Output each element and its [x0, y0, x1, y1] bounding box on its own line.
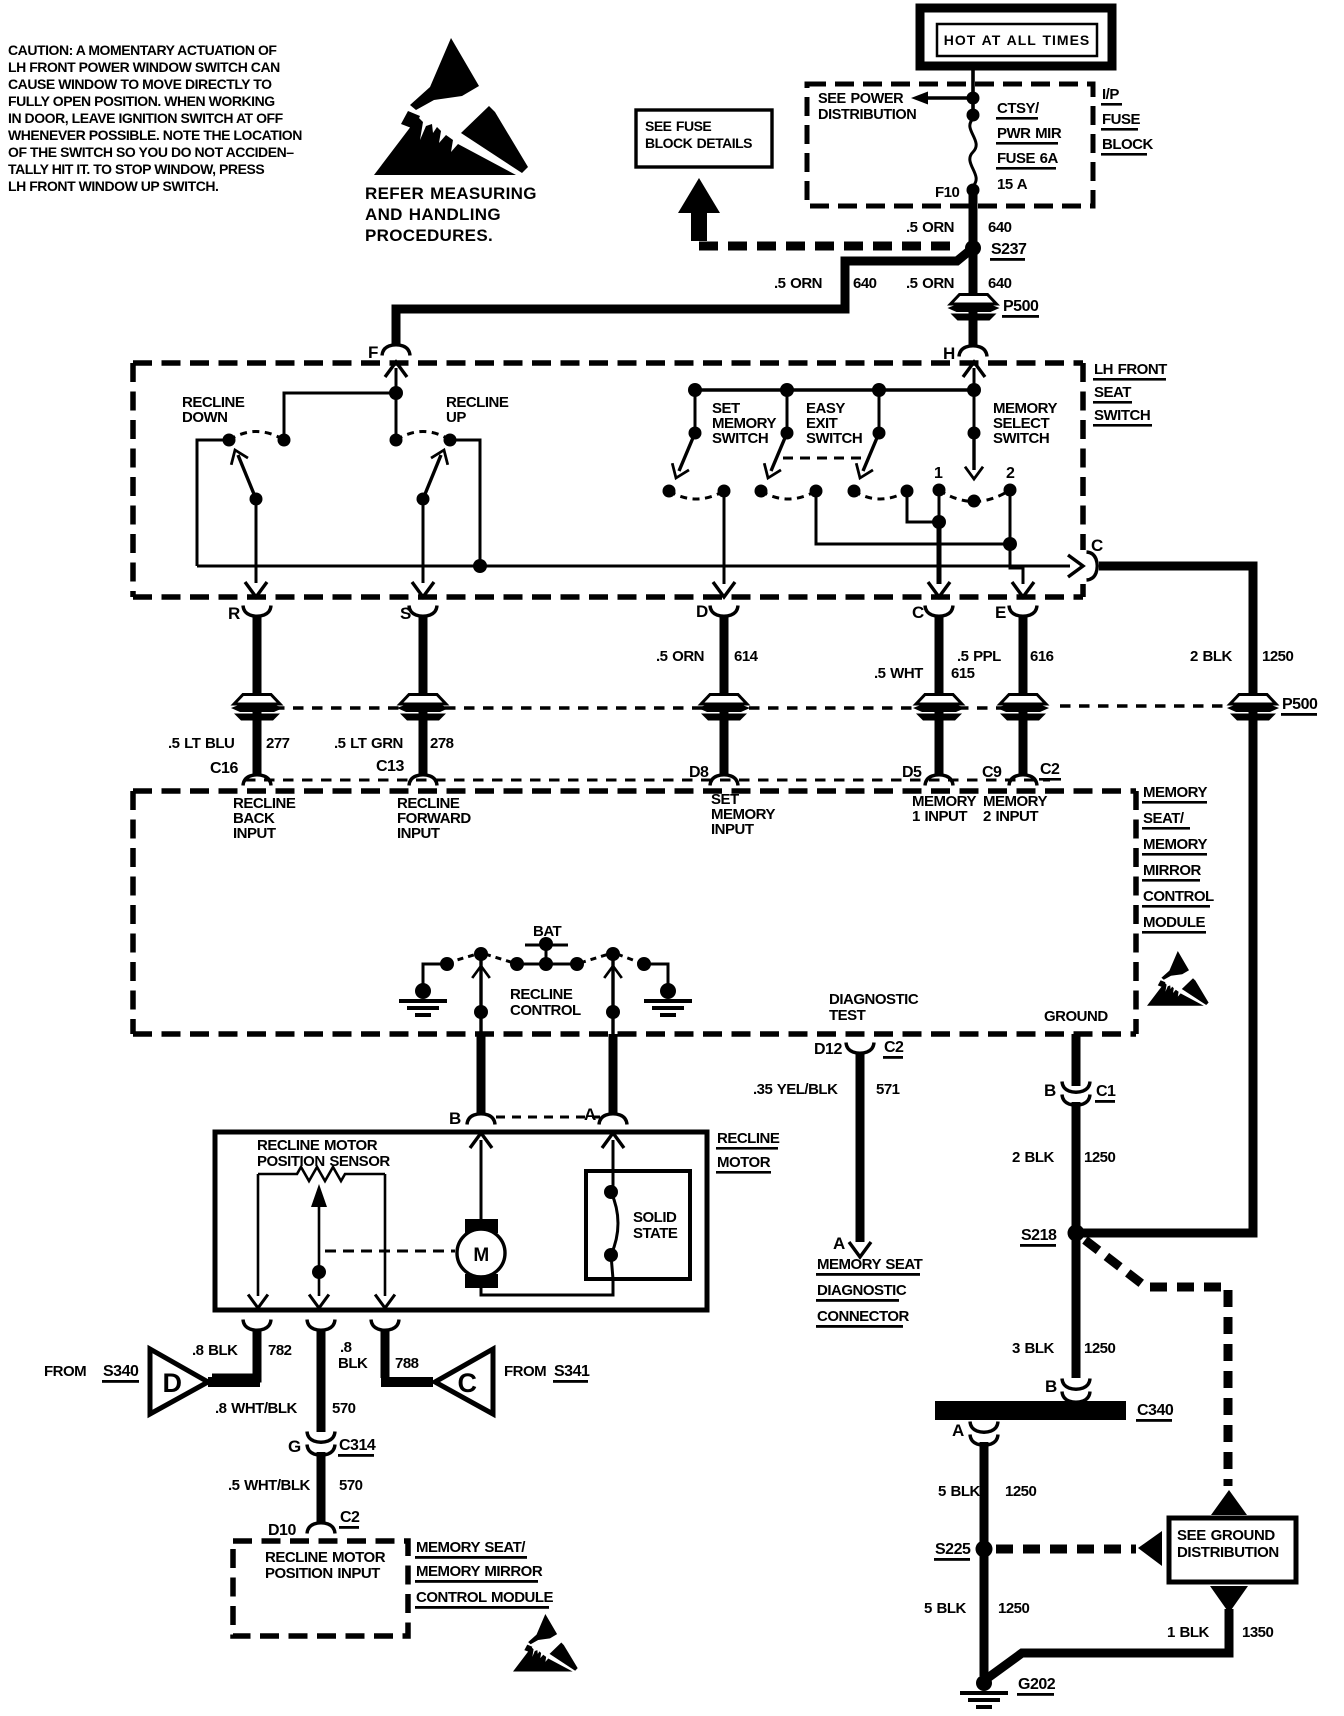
- switch EASY EXIT pole 2: [848, 390, 914, 499]
- svg-text:STATE: STATE: [633, 1225, 678, 1242]
- label RECLINE DOWN: [182, 394, 245, 426]
- connector C340 bar: [935, 1401, 1126, 1420]
- svg-text:.5 WHT/BLK: .5 WHT/BLK: [228, 1477, 310, 1494]
- pin C cup: [925, 606, 953, 617]
- svg-text:POSITION SENSOR: POSITION SENSOR: [257, 1153, 390, 1170]
- grommet 2BLK at P500: [1227, 695, 1279, 721]
- svg-text:C16: C16: [210, 760, 238, 777]
- connector C1: [1062, 1082, 1090, 1093]
- svg-text:15 A: 15 A: [997, 176, 1028, 193]
- svg-text:TEST: TEST: [829, 1007, 866, 1024]
- svg-text:RECLINE MOTOR: RECLINE MOTOR: [257, 1137, 378, 1154]
- label SET MEMORY SWITCH: [712, 400, 776, 447]
- ESD symbol (bottom): [513, 1614, 578, 1672]
- connector plane dashed line P500: [236, 706, 1048, 709]
- svg-text:A: A: [584, 1105, 596, 1124]
- dashed wire to S237: [699, 242, 960, 251]
- sensor wiper: [318, 1196, 321, 1296]
- label .5 LT BLU 277: [168, 735, 290, 752]
- svg-text:.8 WHT/BLK: .8 WHT/BLK: [215, 1400, 297, 1417]
- svg-text:.8: .8: [340, 1339, 352, 1356]
- switch RECLINE DOWN: [223, 432, 291, 506]
- svg-text:LH FRONT: LH FRONT: [1094, 361, 1167, 378]
- label 5 BLK 1250 (upper): [938, 1483, 1037, 1500]
- svg-text:F10: F10: [935, 184, 960, 201]
- wire S218 to C340: [1072, 1237, 1081, 1378]
- svg-text:A: A: [952, 1421, 964, 1440]
- svg-text:C: C: [912, 603, 924, 622]
- svg-text:C13: C13: [376, 758, 404, 775]
- ground G202: [960, 1675, 1008, 1709]
- easy exit mechanical link: [783, 457, 869, 460]
- svg-text:S340: S340: [103, 1363, 139, 1380]
- SEE FUSE BLOCK DETAILS box: [636, 110, 772, 167]
- switch SET MEMORY: [663, 390, 731, 499]
- switch MEMORY SELECT: [933, 390, 1017, 508]
- label SET MEMORY INPUT: [711, 791, 775, 838]
- svg-text:DIAGNOSTIC: DIAGNOSTIC: [817, 1282, 907, 1299]
- label RECLINE UP: [446, 394, 509, 426]
- solid state contact: [612, 1171, 615, 1190]
- svg-text:S218: S218: [1021, 1227, 1057, 1244]
- svg-text:SWITCH: SWITCH: [993, 430, 1049, 447]
- svg-text:SWITCH: SWITCH: [1094, 407, 1150, 424]
- wire relay left to B: [479, 958, 482, 1034]
- wire F rail: [284, 393, 396, 440]
- A entry arrow into motor box: [602, 1133, 624, 1148]
- wire from HOT box into fuse: [971, 66, 975, 120]
- label RECLINE FORWARD INPUT: [397, 795, 471, 842]
- wire to C triangle: [381, 1330, 390, 1378]
- arrow up to SEE FUSE BLOCK DETAILS: [678, 178, 720, 213]
- svg-text:1250: 1250: [1262, 648, 1294, 665]
- ESD warning symbol (top): [374, 38, 528, 175]
- svg-text:C: C: [458, 1368, 477, 1398]
- svg-text:614: 614: [734, 648, 759, 665]
- svg-text:P500: P500: [1282, 696, 1318, 713]
- node F junction: [389, 386, 403, 400]
- I/P fuse block dashed box: [807, 84, 1093, 206]
- label MEMORY SEAT/MEMORY MIRROR CONTROL MODULE (bottom): [415, 1539, 554, 1609]
- label MEMORY SEAT/MEMORY MIRROR CONTROL MODULE (right): [1142, 784, 1214, 934]
- svg-text:277: 277: [266, 735, 290, 752]
- relay wiper left: [474, 947, 488, 961]
- label .5 ORN 614: [656, 648, 759, 665]
- svg-text:RECLINE: RECLINE: [717, 1130, 780, 1147]
- connector B cap: [467, 1114, 495, 1125]
- svg-text:A: A: [833, 1234, 845, 1253]
- MEMORY SEAT MODULE dashed box: [133, 791, 1136, 1034]
- RECLINE MOTOR POSITION INPUT dashed box: [233, 1541, 408, 1636]
- svg-text:CONTROL: CONTROL: [1143, 888, 1214, 905]
- connector D10/C2 cap: [307, 1523, 335, 1534]
- wire common line to C: [197, 565, 1070, 568]
- svg-text:I/P: I/P: [1102, 86, 1119, 103]
- label FROM S340: [44, 1363, 139, 1383]
- svg-text:BLOCK: BLOCK: [1102, 136, 1153, 153]
- label .5 WHT/BLK 570: [228, 1477, 363, 1494]
- svg-text:SEAT: SEAT: [1094, 384, 1131, 401]
- svg-text:INPUT: INPUT: [233, 825, 276, 842]
- connector C13 cap: [409, 775, 437, 786]
- svg-text:1 INPUT: 1 INPUT: [912, 808, 967, 825]
- svg-text:M: M: [473, 1245, 488, 1266]
- label .5 ORN 640 (below S237): [906, 275, 1012, 292]
- wire relay right to A: [611, 958, 614, 1034]
- svg-text:S225: S225: [935, 1541, 971, 1558]
- grommet C at P500: [913, 695, 965, 721]
- svg-text:2 BLK: 2 BLK: [1190, 648, 1233, 665]
- svg-text:615: 615: [951, 665, 975, 682]
- connector C16 cap: [243, 775, 271, 786]
- label .5 LT GRN 278: [334, 735, 454, 752]
- svg-text:278: 278: [430, 735, 454, 752]
- svg-text:571: 571: [876, 1081, 900, 1098]
- label RECLINE CONTROL: [510, 986, 581, 1019]
- label .8 WHT/BLK 570: [215, 1400, 356, 1417]
- wire S output: [422, 499, 425, 583]
- svg-text:.5 ORN: .5 ORN: [906, 219, 954, 236]
- ESD symbol (module): [1147, 951, 1209, 1006]
- wire recline-up contact to common: [450, 440, 480, 563]
- svg-text:INPUT: INPUT: [711, 821, 754, 838]
- svg-text:REFER MEASURING: REFER MEASURING: [365, 184, 537, 203]
- relay wiper right: [606, 947, 620, 961]
- svg-text:1250: 1250: [998, 1600, 1030, 1617]
- label RECLINE BACK INPUT: [233, 795, 296, 842]
- arrow below ground distribution box: [1210, 1586, 1248, 1613]
- fuse CTSY/PWR MIR FUSE 6A: [970, 119, 976, 186]
- svg-text:B: B: [1045, 1377, 1057, 1396]
- svg-text:C2: C2: [1040, 761, 1060, 778]
- C side exit arrow: [1068, 555, 1083, 577]
- svg-text:D12: D12: [814, 1041, 842, 1058]
- connector C340 A: [970, 1422, 998, 1433]
- connector plane dashed line (module top): [245, 779, 1050, 782]
- fuse labels: [996, 100, 1062, 193]
- svg-text:MEMORY MIRROR: MEMORY MIRROR: [416, 1563, 543, 1580]
- svg-text:D: D: [163, 1368, 182, 1398]
- wire to D triangle: [212, 1330, 257, 1378]
- label EASY EXIT SWITCH: [806, 400, 862, 447]
- wire motor bottom to solid state: [481, 1279, 613, 1295]
- connector C314: [307, 1432, 335, 1443]
- label FROM S341: [504, 1363, 590, 1383]
- svg-text:1250: 1250: [1084, 1149, 1116, 1166]
- svg-text:R: R: [228, 604, 240, 623]
- wire C1 to S218: [1072, 1102, 1081, 1233]
- connector C9/C2 cap: [1009, 775, 1037, 786]
- label MEMORY 2 INPUT: [983, 793, 1047, 825]
- label MEMORY 1 INPUT: [912, 793, 976, 825]
- svg-text:MEMORY: MEMORY: [1143, 836, 1207, 853]
- switch EASY EXIT pole 1: [755, 390, 823, 499]
- label RECLINE MOTOR (module): [716, 1130, 780, 1174]
- SOLID STATE box: [586, 1171, 690, 1279]
- svg-text:640: 640: [853, 275, 877, 292]
- svg-text:570: 570: [332, 1400, 356, 1417]
- label MEMORY SEAT DIAGNOSTIC CONNECTOR: [816, 1256, 923, 1328]
- svg-text:S341: S341: [554, 1363, 590, 1380]
- wire 1 BLK to G202: [985, 1609, 1229, 1680]
- svg-text:C314: C314: [339, 1437, 376, 1454]
- svg-text:SWITCH: SWITCH: [712, 430, 768, 447]
- svg-text:DISTRIBUTION: DISTRIBUTION: [1177, 1544, 1279, 1561]
- pin S cup: [409, 606, 437, 617]
- svg-text:TALLY HIT IT. TO STOP WINDOW,: TALLY HIT IT. TO STOP WINDOW, PRESS: [8, 161, 264, 177]
- svg-text:DISTRIBUTION: DISTRIBUTION: [818, 107, 916, 123]
- svg-text:CONNECTOR: CONNECTOR: [817, 1308, 910, 1325]
- svg-text:616: 616: [1030, 648, 1054, 665]
- label .5 ORN 640 (above S237): [906, 219, 1012, 236]
- svg-text:HOT AT ALL TIMES: HOT AT ALL TIMES: [944, 32, 1091, 48]
- switch RECLINE UP: [390, 432, 457, 506]
- wire memory1 to C output: [907, 491, 936, 522]
- node S225: [976, 1541, 993, 1558]
- connector A cap: [599, 1114, 627, 1125]
- connector F cap: [382, 345, 410, 356]
- wire ground to C1: [1072, 1034, 1081, 1086]
- node S218: [1068, 1225, 1085, 1242]
- svg-text:788: 788: [395, 1355, 419, 1372]
- F entry arrow: [385, 362, 407, 377]
- svg-text:RECLINE MOTOR: RECLINE MOTOR: [265, 1549, 386, 1566]
- svg-text:640: 640: [988, 275, 1012, 292]
- pin D cup: [710, 606, 738, 617]
- wire branch S237 to F: [396, 252, 968, 346]
- wire center to C314: [317, 1330, 326, 1432]
- B-A connector dashed link: [496, 1116, 600, 1119]
- connector D5 cap: [925, 775, 953, 786]
- svg-text:782: 782: [268, 1342, 292, 1359]
- label .5 ORN 640 (branch): [774, 275, 877, 292]
- svg-text:D: D: [696, 602, 708, 621]
- label .8 BLK 788: [338, 1339, 419, 1372]
- svg-text:3 BLK: 3 BLK: [1012, 1340, 1055, 1357]
- label 1 BLK 1350: [1167, 1624, 1274, 1641]
- pin E cup: [1009, 606, 1037, 617]
- svg-text:1250: 1250: [1084, 1340, 1116, 1357]
- svg-text:FUSE 6A: FUSE 6A: [997, 150, 1059, 167]
- label SEE POWER DISTRIBUTION: [818, 91, 916, 123]
- wire memory2 to E output: [816, 491, 1007, 544]
- connector H cap: [959, 346, 987, 357]
- label 2 BLK 1250: [1012, 1149, 1116, 1166]
- svg-text:PWR MIR: PWR MIR: [997, 125, 1062, 142]
- svg-text:.5 PPL: .5 PPL: [957, 648, 1001, 665]
- ground (relay right): [644, 964, 668, 984]
- ESD note text: [365, 184, 537, 245]
- label RECLINE MOTOR POSITION SENSOR: [257, 1137, 390, 1170]
- svg-text:MEMORY: MEMORY: [1143, 784, 1207, 801]
- svg-text:5 BLK: 5 BLK: [924, 1600, 967, 1617]
- motor M: [457, 1219, 505, 1288]
- grommet S at P500: [397, 695, 449, 721]
- svg-text:5 BLK: 5 BLK: [938, 1483, 981, 1500]
- svg-text:PROCEDURES.: PROCEDURES.: [365, 226, 493, 245]
- B entry arrow into motor box: [470, 1133, 492, 1148]
- svg-text:DOWN: DOWN: [182, 409, 228, 426]
- svg-text:2 INPUT: 2 INPUT: [983, 808, 1038, 825]
- svg-text:MIRROR: MIRROR: [1143, 862, 1201, 879]
- svg-text:C1: C1: [1096, 1083, 1116, 1100]
- svg-text:2: 2: [1006, 465, 1015, 482]
- svg-text:1 BLK: 1 BLK: [1167, 1624, 1210, 1641]
- svg-text:POSITION INPUT: POSITION INPUT: [265, 1565, 380, 1582]
- svg-text:B: B: [449, 1109, 461, 1128]
- svg-text:D5: D5: [902, 764, 922, 781]
- dashed wire S225 to ground distribution: [996, 1545, 1136, 1554]
- svg-text:AND HANDLING: AND HANDLING: [365, 205, 501, 224]
- svg-text:G202: G202: [1018, 1676, 1056, 1693]
- svg-text:D8: D8: [689, 764, 709, 781]
- svg-text:CAUSE WINDOW TO MOVE DIRECTLY: CAUSE WINDOW TO MOVE DIRECTLY TO: [8, 76, 272, 92]
- label I/P FUSE BLOCK: [1101, 86, 1153, 156]
- svg-text:LH FRONT WINDOW UP SWITCH.: LH FRONT WINDOW UP SWITCH.: [8, 178, 218, 194]
- svg-text:MODULE: MODULE: [1143, 914, 1205, 931]
- svg-text:.5 LT GRN: .5 LT GRN: [334, 735, 403, 752]
- triangle C (FROM S341): [435, 1349, 493, 1414]
- wire F to recline-up contact: [395, 393, 398, 440]
- motor box output cups: [243, 1320, 271, 1331]
- label .8 BLK 782: [192, 1342, 292, 1359]
- LH FRONT SEAT SWITCH dashed box: [133, 363, 1083, 597]
- svg-text:H: H: [943, 344, 955, 363]
- svg-text:.5 ORN: .5 ORN: [656, 648, 704, 665]
- svg-text:DIAGNOSTIC: DIAGNOSTIC: [829, 991, 919, 1008]
- svg-text:WHENEVER POSSIBLE. NOTE THE L: WHENEVER POSSIBLE. NOTE THE LOCATION: [8, 127, 302, 143]
- pin R cup: [243, 606, 271, 617]
- svg-text:FROM: FROM: [44, 1363, 86, 1380]
- caution note text: [8, 42, 302, 194]
- H entry arrow: [963, 362, 985, 377]
- wire set memory to D output: [723, 491, 726, 584]
- svg-text:FULLY OPEN POSITION. WHEN WOR: FULLY OPEN POSITION. WHEN WORKING: [8, 93, 275, 109]
- sensor resistor: [258, 1167, 385, 1181]
- svg-text:570: 570: [339, 1477, 363, 1494]
- wire A to S225: [980, 1442, 989, 1549]
- grommet E at P500: [997, 695, 1049, 721]
- svg-text:1: 1: [934, 465, 943, 482]
- svg-text:SEE POWER: SEE POWER: [818, 91, 904, 107]
- wire C exit to S218 (right side run): [1081, 566, 1253, 1233]
- label DIAGNOSTIC TEST: [829, 991, 919, 1024]
- grommet D at P500: [698, 695, 750, 721]
- ground (relay left): [423, 964, 447, 984]
- svg-text:2 BLK: 2 BLK: [1012, 1149, 1055, 1166]
- svg-text:.5 WHT: .5 WHT: [874, 665, 923, 682]
- sensor right leg: [384, 1174, 387, 1296]
- svg-text:D10: D10: [268, 1522, 296, 1539]
- label 2 BLK 1250: [1190, 648, 1294, 665]
- triangle D (FROM S340): [150, 1349, 208, 1414]
- label .5 WHT 615: [874, 665, 975, 682]
- wire recline-down contact to common: [197, 440, 229, 566]
- svg-text:C9: C9: [982, 764, 1002, 781]
- svg-text:SEE FUSE: SEE FUSE: [645, 118, 711, 134]
- svg-text:UP: UP: [446, 409, 466, 426]
- svg-text:MOTOR: MOTOR: [717, 1154, 771, 1171]
- label MEMORY SELECT SWITCH: [993, 400, 1057, 447]
- wire D to D8: [720, 616, 729, 776]
- HOT AT ALL TIMES box: [920, 8, 1112, 66]
- svg-text:.8 BLK: .8 BLK: [192, 1342, 238, 1359]
- svg-text:CONTROL: CONTROL: [510, 1002, 581, 1019]
- wire C314 to D10: [317, 1452, 326, 1523]
- svg-text:MEMORY SEAT: MEMORY SEAT: [817, 1256, 923, 1273]
- wire E to C9: [1019, 616, 1028, 776]
- svg-text:.5 ORN: .5 ORN: [906, 275, 954, 292]
- wire D12 to diag connector: [856, 1053, 865, 1242]
- label 3 BLK 1250: [1012, 1340, 1116, 1357]
- svg-text:1250: 1250: [1005, 1483, 1037, 1500]
- sensor left leg: [257, 1174, 260, 1296]
- wire F10 to S237 to P500 to H: [969, 194, 978, 347]
- svg-text:SEE GROUND: SEE GROUND: [1177, 1527, 1275, 1544]
- svg-text:.35 YEL/BLK: .35 YEL/BLK: [753, 1081, 838, 1098]
- svg-text:F: F: [368, 343, 378, 362]
- svg-text:1350: 1350: [1242, 1624, 1274, 1641]
- svg-text:S: S: [400, 604, 411, 623]
- svg-text:LH FRONT POWER WINDOW SWITCH C: LH FRONT POWER WINDOW SWITCH CAN: [8, 59, 280, 75]
- grommet R at P500: [231, 695, 283, 721]
- wire S225 to G202: [980, 1553, 989, 1676]
- connector D8 cap: [710, 775, 738, 786]
- arrow to SEE POWER DISTRIBUTION: [928, 96, 973, 99]
- RECLINE MOTOR box: [215, 1132, 707, 1310]
- label LH FRONT SEAT SWITCH: [1093, 361, 1167, 427]
- svg-text:MEMORY SEAT/: MEMORY SEAT/: [416, 1539, 526, 1556]
- relay contact row: [517, 963, 577, 966]
- svg-text:.5 ORN: .5 ORN: [774, 275, 822, 292]
- svg-text:INPUT: INPUT: [397, 825, 440, 842]
- svg-text:RECLINE: RECLINE: [510, 986, 573, 1003]
- svg-text:FUSE: FUSE: [1102, 111, 1141, 128]
- svg-text:E: E: [995, 603, 1006, 622]
- connector C340 B: [1062, 1379, 1090, 1390]
- svg-text:B: B: [1044, 1081, 1056, 1100]
- node common junction: [473, 559, 487, 573]
- svg-text:C2: C2: [340, 1509, 360, 1526]
- label 5 BLK 1250 (lower): [924, 1600, 1030, 1617]
- svg-text:SEAT/: SEAT/: [1143, 810, 1185, 827]
- svg-text:CONTROL MODULE: CONTROL MODULE: [416, 1589, 554, 1606]
- svg-text:GROUND: GROUND: [1044, 1008, 1108, 1025]
- H rail: [695, 388, 974, 392]
- wire R output: [255, 499, 258, 583]
- wire R to C16: [253, 616, 262, 776]
- svg-text:BLK: BLK: [338, 1355, 368, 1372]
- svg-text:CAUTION: A MOMENTARY ACTUATIO: CAUTION: A MOMENTARY ACTUATION OF: [8, 42, 277, 58]
- svg-text:C340: C340: [1137, 1402, 1174, 1419]
- svg-text:640: 640: [988, 219, 1012, 236]
- node S237: [965, 240, 981, 256]
- SEE GROUND DISTRIBUTION box: [1169, 1518, 1296, 1582]
- svg-text:.5 LT BLU: .5 LT BLU: [168, 735, 234, 752]
- svg-text:SOLID: SOLID: [633, 1209, 677, 1226]
- svg-text:BLOCK DETAILS: BLOCK DETAILS: [645, 135, 752, 151]
- svg-text:S237: S237: [991, 241, 1027, 258]
- svg-text:OF THE SWITCH SO YOU DO NOT AC: OF THE SWITCH SO YOU DO NOT ACCIDEN–: [8, 144, 294, 160]
- dashed wire S218 to ground distribution: [1085, 1240, 1228, 1486]
- svg-text:FROM: FROM: [504, 1363, 546, 1380]
- wire C to D5: [935, 616, 944, 776]
- wire S to C13: [419, 616, 428, 776]
- dashed link wiper to motor: [325, 1250, 455, 1253]
- svg-text:IN DOOR, LEAVE IGNITION SWITCH: IN DOOR, LEAVE IGNITION SWITCH AT OFF: [8, 110, 284, 126]
- svg-text:SWITCH: SWITCH: [806, 430, 862, 447]
- svg-text:CTSY/: CTSY/: [997, 100, 1040, 117]
